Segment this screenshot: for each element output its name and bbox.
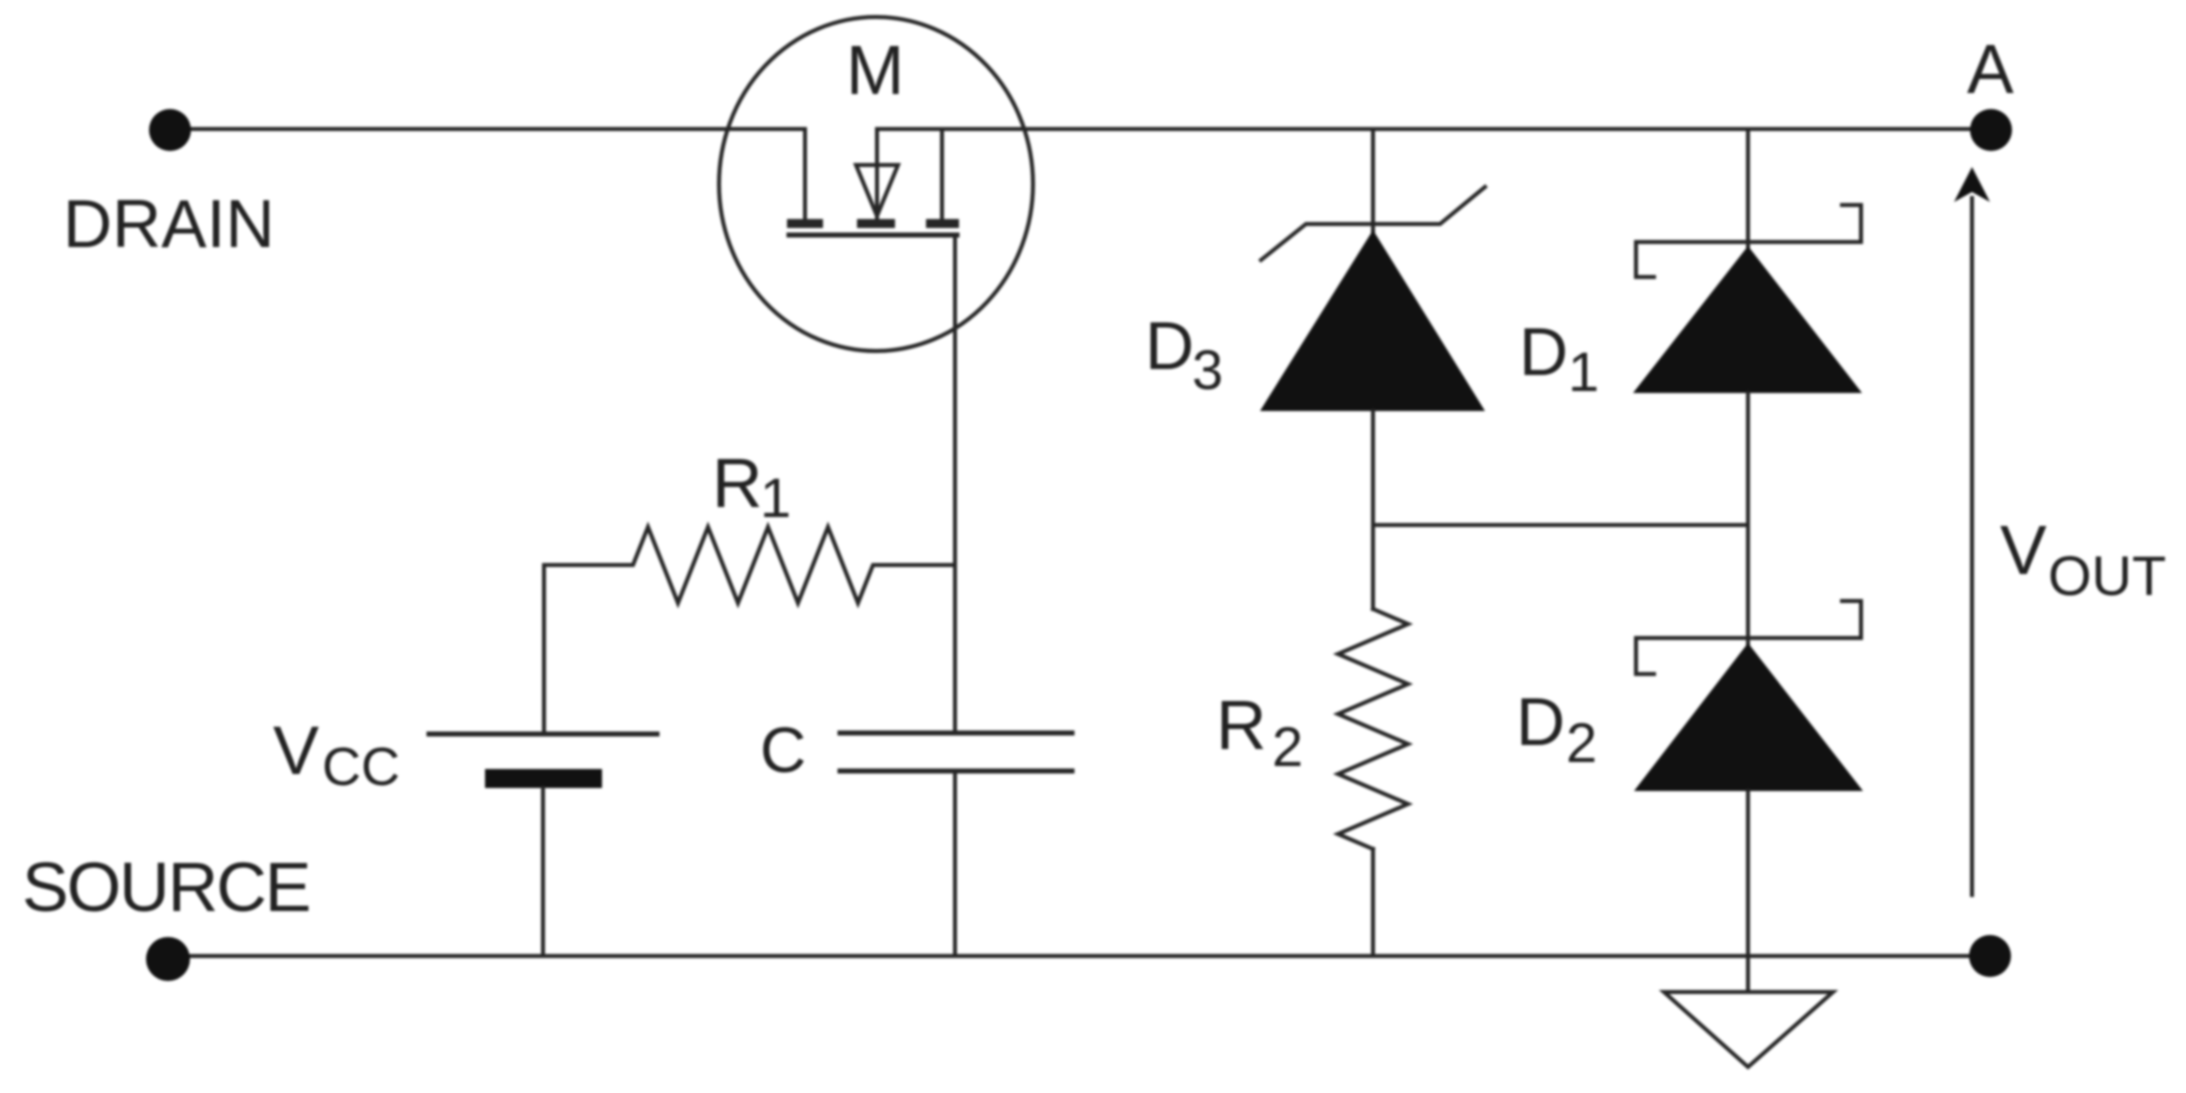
transistor M middle contact bar: [857, 219, 895, 228]
diode D3 lower lead: [1371, 411, 1375, 609]
svg-text:CC: CC: [322, 737, 400, 797]
transistor M body line: [789, 233, 957, 238]
svg-text:V: V: [273, 712, 319, 789]
arrow VOUT head: [1954, 167, 1990, 202]
diode D1 anode lead from top rail: [1746, 129, 1750, 246]
svg-text:D: D: [1145, 308, 1194, 384]
svg-text:2: 2: [1566, 711, 1597, 774]
svg-text:1: 1: [760, 466, 791, 529]
wire top rail right (MOSFET to node A): [877, 127, 1970, 131]
transistor M right lead: [940, 129, 944, 219]
capacitor C bottom plate: [840, 769, 1072, 774]
transistor M arrow (open triangle): [856, 165, 898, 216]
diode D2 bottom lead to ground: [1746, 791, 1750, 992]
transistor M gate lead with arrow: [875, 129, 879, 219]
diode D1 triangle: [1633, 246, 1862, 393]
capacitor C top plate: [840, 731, 1072, 736]
svg-text:A: A: [1967, 30, 2014, 108]
transistor M right contact bar: [926, 219, 959, 228]
battery VCC top plate: [429, 732, 657, 737]
diode D2 zener cathode hooked bar: [1636, 601, 1861, 674]
diode D1 to D2 lead: [1746, 393, 1750, 644]
arrow VOUT measurement line: [1970, 198, 1974, 895]
wire top rail left (DRAIN to MOSFET drain lead): [170, 129, 805, 219]
svg-text:3: 3: [1192, 338, 1223, 401]
diode D3 triangle: [1260, 230, 1485, 411]
node output terminal bottom right: [1969, 935, 2011, 977]
capacitor C bottom lead: [953, 771, 957, 956]
svg-text:D: D: [1516, 684, 1565, 760]
svg-text:2: 2: [1272, 715, 1303, 778]
svg-text:OUT: OUT: [2048, 544, 2166, 607]
battery VCC bottom thick plate: [485, 769, 602, 788]
svg-text:DRAIN: DRAIN: [63, 186, 275, 262]
svg-text:1: 1: [1568, 340, 1599, 403]
node SOURCE terminal: [146, 937, 190, 981]
wire connector D3 branch to D1 branch: [1373, 523, 1748, 527]
diode D1 zener cathode hooked bar: [1636, 205, 1861, 277]
wire bottom rail: [168, 954, 1990, 958]
battery VCC bottom lead: [541, 788, 545, 956]
transistor M drain contact bar: [787, 219, 823, 228]
svg-text:D: D: [1519, 314, 1568, 390]
wire R1 left lead down to battery: [542, 565, 546, 732]
resistor R1: [544, 527, 955, 603]
svg-text:R: R: [1216, 686, 1267, 764]
diode D2 triangle: [1634, 643, 1863, 791]
node A terminal: [1970, 109, 2012, 151]
transistor M body circle: [719, 17, 1033, 351]
svg-text:C: C: [760, 714, 806, 786]
diode D3 anode lead from top rail: [1371, 129, 1375, 231]
diode D3 zener cathode bent bar: [1261, 187, 1485, 260]
svg-text:R: R: [712, 444, 763, 522]
transistor M source lead down to capacitor: [953, 235, 957, 733]
resistor R2 bottom lead: [1371, 849, 1375, 956]
svg-text:SOURCE: SOURCE: [22, 848, 309, 926]
svg-text:V: V: [2000, 511, 2047, 589]
resistor R2: [1338, 609, 1408, 849]
node DRAIN terminal: [149, 109, 191, 151]
ground symbol: [1664, 992, 1833, 1067]
svg-text:M: M: [846, 31, 904, 109]
